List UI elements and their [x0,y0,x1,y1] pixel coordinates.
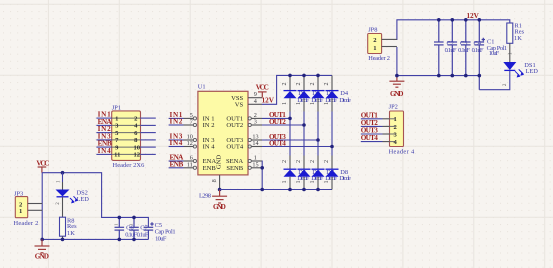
svg-text:OUT4: OUT4 [226,144,244,151]
junction dots diode rail top [288,74,320,78]
diode D8 [323,156,351,190]
wire IN4 [169,146,184,148]
svg-text:Header 2: Header 2 [368,55,390,62]
svg-text:2: 2 [323,160,330,163]
svg-text:Header 2: Header 2 [14,220,39,227]
svg-text:0.1uF: 0.1uF [472,47,484,54]
U1 left pin bubbles [193,117,196,170]
svg-text:12V: 12V [262,96,275,104]
wire JP2 OUT2 [361,125,383,127]
svg-text:1: 1 [323,180,330,183]
capacitor C3 [448,20,471,76]
svg-text:ENB: ENB [170,160,184,168]
JP1 right wires [141,118,156,154]
diode D3 [309,75,337,111]
svg-text:VCC: VCC [36,159,49,167]
IC U1 body [198,84,248,200]
svg-text:1: 1 [281,102,288,105]
wire JP3 pin1 stub [28,209,43,211]
junction dots caps top rail [118,216,136,220]
wire OUT4 [262,146,332,148]
header JP8 [368,26,390,62]
diode D6 [295,156,323,190]
wire 12V rail [397,20,510,40]
svg-text:1: 1 [281,180,288,183]
wire ENA [169,160,184,162]
wire OUT1 [262,117,290,119]
diode D1 [281,75,309,111]
svg-text:IN 2: IN 2 [203,122,215,129]
svg-text:1: 1 [309,102,316,105]
power symbol VCC at VSS pin [258,92,267,98]
svg-text:GND: GND [390,90,404,98]
svg-text:GND: GND [213,203,226,211]
svg-text:4: 4 [254,98,257,105]
wire R1 to LED [509,43,511,62]
diode D5 [281,156,309,190]
svg-text:12: 12 [134,152,141,159]
svg-text:10uF: 10uF [155,236,167,243]
JP2 pin numbers [394,116,398,146]
JP1 pin lines [112,118,141,154]
U1 pin names [203,95,244,172]
svg-text:15: 15 [252,161,258,168]
wire JP8 pin2 stub [382,38,397,40]
svg-text:14: 14 [252,140,258,147]
JP1 pin numbers [114,115,120,158]
svg-text:IN4: IN4 [98,147,112,155]
wire SENA SENB to ground [261,161,263,190]
resistor R8 [60,217,78,237]
U1 GND pin 8 [219,175,221,190]
junction U1 ground [218,188,222,192]
capacitor C7 [129,217,149,239]
diode D2 [295,75,323,111]
svg-text:SENB: SENB [226,165,243,172]
svg-text:IN2: IN2 [170,118,183,126]
capacitor C5 polarized [144,222,176,243]
wire diode column mid segments [290,112,332,156]
wire JP2 OUT4 [361,141,383,143]
svg-text:12V: 12V [467,12,480,20]
wire LED DS2 to R8 [62,197,64,217]
svg-text:C4: C4 [474,40,482,47]
svg-text:LED: LED [526,68,539,75]
svg-text:JP1: JP1 [112,105,121,112]
svg-text:0.1uF: 0.1uF [125,231,137,238]
JP1 net labels [98,111,113,155]
junction GND under JP3 [40,238,44,242]
svg-text:2: 2 [281,82,288,85]
wire GND rail top-right [397,47,479,76]
svg-text:2: 2 [281,160,288,163]
svg-text:Diode: Diode [339,97,351,104]
JP1 left wires [96,118,111,154]
U1 left pin stubs [184,118,194,167]
junction dots on GND rail [437,74,481,78]
svg-text:VS: VS [235,101,244,108]
svg-text:OUT2: OUT2 [269,118,286,126]
wire JP2 OUT3 [361,133,383,135]
wire JP2 OUT1 [361,118,383,120]
svg-text:Header 2X6: Header 2X6 [113,162,145,169]
U1 left pin numbers [187,112,193,168]
wire IN3 [169,139,184,141]
wire VCC rail to LED DS2 [62,173,64,182]
svg-text:1K: 1K [67,230,75,237]
wire bottom GND rail [220,189,332,191]
svg-text:11: 11 [187,161,193,168]
LED DS2 [56,180,90,205]
svg-text:0.1uF: 0.1uF [458,47,470,54]
junction dots bottom rail [288,188,320,192]
svg-text:Cap Pol1: Cap Pol1 [155,228,176,235]
wire IN2 [169,124,184,126]
svg-text:10uF: 10uF [489,50,500,57]
svg-text:0.1uF: 0.1uF [137,231,149,238]
svg-text:L298: L298 [199,192,211,199]
svg-text:1K: 1K [514,35,522,42]
svg-text:OUT4: OUT4 [361,134,378,142]
svg-text:Diode: Diode [339,175,351,182]
svg-text:1: 1 [323,102,330,105]
junction R8 at GND rail [61,238,65,242]
LED DS1 [503,62,538,86]
svg-text:OUT2: OUT2 [226,122,243,129]
svg-text:Header 4: Header 4 [389,149,415,156]
svg-text:11: 11 [114,152,120,159]
junction GND rail start [395,74,399,78]
svg-text:2: 2 [295,160,302,163]
junction VCC rail at LED column [61,171,65,175]
U1 right pin bubbles [248,117,251,170]
svg-text:2: 2 [323,82,330,85]
diode D4 [323,75,351,111]
diode D7 [309,156,337,190]
svg-text:1: 1 [394,116,397,123]
svg-text:GND: GND [35,253,49,261]
svg-text:1: 1 [309,180,316,183]
ground symbol under JP3 [35,239,50,252]
svg-text:1: 1 [19,208,22,215]
header JP3 [14,190,39,226]
capacitor C4 [461,20,484,76]
wire OUT2 [262,124,304,126]
U1 right pin numbers [252,91,258,168]
capacitor C6 [115,217,138,239]
svg-text:1: 1 [373,45,376,52]
wire VS to diode rail [262,75,332,104]
wire LED DS1 bottom to C1 [479,71,510,90]
resistor R1 [507,23,525,44]
svg-text:2: 2 [309,82,316,85]
wire JP3 vertical [41,173,43,240]
svg-text:7: 7 [190,119,193,126]
junction dots on 12V rail [437,18,481,22]
ground symbol under JP8 [389,76,404,88]
svg-text:LED: LED [77,196,90,203]
wire GND rail bottom-left [42,238,148,240]
wire JP3 pin2 stub [28,203,43,205]
wire OUT3 [262,139,318,141]
svg-text:3: 3 [254,119,257,126]
wire JP8 pin1 stub [382,46,397,48]
svg-text:GND: GND [215,155,222,170]
capacitor C2 [434,20,457,76]
wire ENB [169,167,184,169]
svg-text:2: 2 [295,82,302,85]
svg-text:IN 4: IN 4 [203,144,216,151]
junction dots columns at OUT rows [288,117,334,149]
svg-text:0.1uF: 0.1uF [445,47,457,54]
svg-text:1: 1 [295,180,302,183]
svg-text:VCC: VCC [256,84,269,92]
wire IN1 [169,117,184,119]
svg-text:JP2: JP2 [389,104,398,111]
svg-text:1: 1 [115,115,118,122]
U1 right pin stubs [248,98,262,168]
svg-text:JP8: JP8 [368,26,377,33]
svg-text:8: 8 [211,179,218,182]
JP2 pin lines [390,119,396,142]
capacitor C1 polarized [475,20,508,90]
svg-text:1: 1 [295,102,302,105]
junction dots caps GND rail [118,238,136,242]
svg-text:12: 12 [187,140,193,147]
svg-text:OUT4: OUT4 [269,139,286,147]
wire VCC rail [42,173,148,228]
ground symbol under U1 [212,190,227,204]
power symbol VCC [38,167,47,173]
svg-text:U1: U1 [198,84,206,91]
svg-text:JP3: JP3 [14,190,23,197]
svg-text:10: 10 [134,144,141,151]
svg-text:IN4: IN4 [170,139,183,147]
svg-text:2: 2 [309,160,316,163]
wire R8 to GND rail [62,236,64,239]
